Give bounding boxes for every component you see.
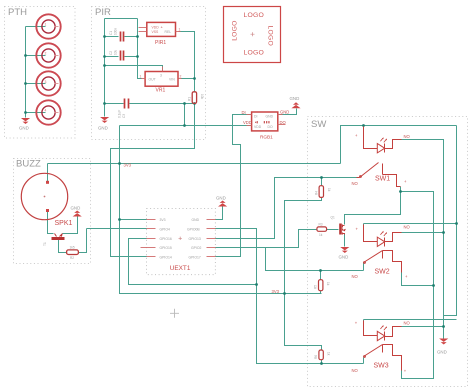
wire SW2 plus line — [364, 223, 457, 225]
frame UEXT1 connector box — [147, 209, 216, 275]
wire BUZZ resistor to UEXT — [79, 229, 87, 253]
pad P1 — [36, 14, 60, 38]
svg-text:2: 2 — [45, 52, 47, 56]
wire Q1 drain run — [345, 192, 401, 225]
svg-text:NO: NO — [404, 225, 411, 230]
svg-text:GND: GND — [290, 96, 300, 101]
junction PIR C2 left — [103, 55, 106, 58]
junction SW1 resistor — [320, 176, 323, 179]
svg-text:UEXT1: UEXT1 — [170, 265, 191, 272]
junction rail right — [455, 222, 458, 225]
svg-text:100n: 100n — [114, 28, 118, 35]
wire PTH pad bus vertical — [25, 27, 27, 118]
svg-text:1k: 1k — [319, 233, 323, 237]
junction PIR adj row — [103, 64, 106, 67]
junction 3V3 speaker line — [118, 162, 121, 165]
svg-text:GPIO4: GPIO4 — [160, 228, 170, 232]
svg-text:OUT: OUT — [149, 78, 156, 82]
svg-text:NO: NO — [352, 181, 359, 186]
wire BUZZ gnd branch — [63, 217, 78, 234]
switch SW3 left stub — [364, 356, 365, 358]
junction SW1 plus rail — [362, 124, 365, 127]
svg-text:1k: 1k — [327, 352, 331, 356]
switch SW2 lamp feed — [364, 225, 378, 242]
svg-text:SW1: SW1 — [375, 176, 390, 183]
junction PIR C3 left — [103, 102, 106, 105]
wire SW2 plus riser — [363, 224, 365, 241]
junction PIR C1 right — [136, 35, 139, 38]
wire SW3 contact riser — [363, 358, 365, 364]
pad P2 — [36, 43, 60, 67]
frame SW section box — [308, 117, 468, 387]
svg-text:▸▮: ▸▮ — [255, 120, 258, 124]
svg-text:C1: C1 — [109, 31, 113, 35]
svg-text:DI: DI — [254, 115, 257, 119]
wire SW3 switch out — [402, 286, 434, 379]
svg-text:T1: T1 — [43, 242, 47, 246]
svg-text:LOGO: LOGO — [267, 26, 274, 46]
resistor R2 buzzer base — [67, 250, 79, 255]
svg-text:REL: REL — [165, 30, 172, 34]
svg-text:GND: GND — [266, 115, 274, 119]
junction SW2 out — [432, 284, 435, 287]
svg-text:4: 4 — [45, 109, 47, 113]
ground GND Q1 — [340, 247, 349, 253]
svg-text:R2: R2 — [70, 256, 74, 260]
frame PIR section box — [92, 7, 206, 140]
svg-text:VDD: VDD — [254, 125, 262, 129]
origin cross — [170, 309, 179, 318]
wire 3V3 to RGB VDD — [120, 125, 252, 127]
IC RGB1 led module — [252, 112, 278, 131]
svg-text:LOGO: LOGO — [232, 20, 239, 40]
LED SW3 — [377, 331, 384, 340]
wire SW2 cathode line — [402, 232, 444, 234]
pad P4 — [36, 100, 60, 124]
wire SW1 switch out to Q1 — [401, 187, 434, 379]
wire SW1 contact riser — [363, 263, 365, 271]
wire RGB GND — [278, 109, 297, 115]
svg-text:NO: NO — [352, 274, 359, 279]
svg-text:GND: GND — [280, 109, 289, 114]
wire VR1 adj row — [105, 66, 163, 71]
switch SW1 cathode to NO pin — [385, 140, 402, 149]
wire BUZZ speaker bottom — [48, 211, 54, 234]
svg-text:PTH: PTH — [8, 7, 27, 18]
wire speaker top riser — [47, 164, 49, 183]
switch SW3 cathode to NO pin — [385, 327, 402, 337]
wire C1 row — [105, 36, 119, 38]
connector UEXT1 pins — [141, 220, 216, 257]
wire R1 bottom to row5 riser — [111, 104, 195, 257]
wire 3V3 vertical trunk — [120, 126, 322, 294]
svg-text:GPIO13: GPIO13 — [189, 237, 201, 241]
junction PTH pad2 — [24, 54, 27, 57]
transistor Q1 — [339, 224, 342, 235]
IC PIR1 sensor module — [147, 22, 176, 36]
switch SW2 right contact path — [383, 251, 402, 273]
svg-text:3V3: 3V3 — [272, 289, 280, 294]
svg-text:GND: GND — [71, 206, 81, 211]
capacitor C2 — [120, 51, 122, 61]
svg-text:VIN: VIN — [169, 78, 175, 82]
svg-text:GND: GND — [192, 218, 200, 222]
junction R1 bottom — [193, 102, 196, 105]
switch SW1 left stub — [357, 177, 360, 179]
svg-text:SPK1: SPK1 — [55, 220, 73, 227]
junction RGB VDD branch — [183, 124, 186, 127]
svg-text:3V3: 3V3 — [124, 163, 132, 168]
svg-text:GPIO14: GPIO14 — [160, 255, 172, 259]
svg-text:GND: GND — [339, 255, 349, 260]
wire C2 row — [105, 56, 119, 58]
svg-text:2: 2 — [180, 75, 182, 79]
svg-text:1: 1 — [179, 27, 181, 31]
svg-text:R1: R1 — [188, 97, 192, 101]
junction SW2 resistor — [319, 269, 322, 272]
switch SW2 cathode to NO pin — [385, 233, 402, 242]
ground GND UEXT (up) — [218, 201, 227, 207]
svg-text:▮ ▮ ▮: ▮ ▮ ▮ — [264, 120, 271, 124]
frame BUZZ section box — [14, 159, 91, 264]
resistor R4 SW1 pull — [319, 186, 323, 198]
svg-text:C2: C2 — [109, 51, 113, 55]
wire UEXT row2 right — [216, 229, 364, 364]
svg-text:GPIO16: GPIO16 — [160, 237, 172, 241]
switch SW3 lamp feed — [364, 321, 378, 336]
wire SW1 pull resistor top — [321, 178, 323, 186]
switch SW1 lamp feed — [364, 127, 378, 149]
LED SW2 — [377, 237, 384, 246]
svg-text:1: 1 — [140, 75, 142, 79]
switch SW2 lever — [364, 251, 383, 263]
junction SW2 cathode gnd — [442, 231, 445, 234]
ground GND BUZZ (up) — [73, 211, 82, 217]
wire SW3 cathode line — [402, 326, 444, 328]
svg-text:VR1: VR1 — [156, 88, 166, 94]
svg-text:RGB1: RGB1 — [260, 134, 273, 139]
switch SW1 lever — [360, 163, 379, 178]
transistor T1 buzzer driver — [52, 234, 65, 239]
svg-text:C3: C3 — [122, 114, 126, 118]
wire C3 row — [105, 103, 124, 105]
junction C3 branch — [183, 102, 186, 105]
resistor R6 SW3 pull — [319, 350, 323, 360]
frame PTH section box — [5, 7, 76, 139]
svg-text:GND: GND — [216, 196, 226, 201]
wire VR1 VIN — [181, 78, 195, 80]
svg-text:R6: R6 — [314, 355, 318, 359]
svg-text:VSS: VSS — [152, 30, 160, 34]
svg-text:BUZZ: BUZZ — [16, 159, 41, 170]
LED SW1 — [377, 144, 384, 153]
ground GND SW right — [439, 339, 448, 345]
wire RGB VDD branch — [184, 104, 186, 126]
svg-text:R5: R5 — [314, 285, 318, 289]
capacitor C1 — [120, 32, 122, 42]
svg-text:3: 3 — [45, 80, 47, 84]
wire BUZZ base to UEXT row2 — [87, 228, 147, 230]
junction SW1 out — [399, 190, 402, 193]
svg-text:10k: 10k — [200, 94, 204, 100]
wire PIR gnd rail — [104, 19, 106, 117]
junction VR1 VIN — [193, 77, 196, 80]
svg-text:PIR: PIR — [95, 7, 111, 18]
svg-text:GPIO0B: GPIO0B — [187, 228, 200, 232]
wire PIR1 REL to R1 — [179, 32, 195, 92]
switch SW3 contact bar — [382, 345, 384, 353]
LOGO plate — [224, 7, 281, 63]
svg-text:LOGO: LOGO — [244, 12, 264, 19]
svg-text:GPIO15: GPIO15 — [160, 246, 172, 250]
junction PIR C2 right — [136, 55, 139, 58]
resistor R5 SW2 pull — [319, 280, 323, 291]
resistor R1 vertical — [192, 92, 196, 104]
wire PIR vdd rail — [138, 19, 142, 79]
junction row3 link — [255, 283, 258, 286]
wire SW3 plus line — [364, 319, 457, 321]
wire UEXT row4 right — [216, 230, 317, 248]
switch SW2 left stub — [364, 262, 365, 264]
capacitor C3 — [124, 99, 126, 109]
svg-text:GPIO2: GPIO2 — [191, 246, 201, 250]
svg-text:GND: GND — [19, 126, 29, 131]
junction SW3 resistor — [320, 362, 323, 365]
svg-text:Q1: Q1 — [331, 216, 335, 220]
switch SW3 right contact path — [383, 345, 402, 371]
wire SW1 pull resistor bottom — [285, 198, 322, 351]
wire PIR top loop — [105, 18, 138, 20]
svg-text:SW3: SW3 — [374, 363, 389, 370]
speaker SPK1 — [21, 173, 67, 219]
svg-text:NO: NO — [404, 134, 411, 139]
svg-text:R4: R4 — [314, 191, 318, 195]
wire PTH pad4 stub — [26, 112, 46, 114]
svg-text:SW2: SW2 — [375, 269, 390, 276]
junction PIR C1 left — [103, 35, 106, 38]
switch SW3 lever — [364, 345, 383, 357]
wire UEXT 3V3 row — [120, 219, 147, 221]
svg-text:GND: GND — [437, 350, 447, 355]
wire PTH pad1 stub — [26, 26, 46, 28]
switch SW2 contact bar — [382, 251, 384, 259]
svg-text:NO: NO — [352, 368, 359, 373]
svg-text:NO: NO — [404, 321, 411, 326]
wire SW1 cathode NO line — [402, 140, 444, 339]
wire BUZZ base resistor run — [59, 240, 67, 253]
wire SW right rail — [444, 126, 457, 316]
wire SW2 switch out — [402, 273, 434, 286]
wire RGB DI — [216, 115, 252, 257]
junction SW3 cathode gnd — [442, 325, 445, 328]
wire PTH pad2 stub — [26, 55, 46, 57]
wire PTH pad3 stub — [26, 83, 46, 85]
junction PTH pad3 — [24, 82, 27, 85]
svg-text:1k: 1k — [327, 188, 331, 192]
ground GND PIR — [100, 117, 109, 123]
wire UEXT GND to symbol — [216, 207, 223, 220]
svg-text:1k: 1k — [326, 282, 330, 286]
wire SW2 pull resistor stubs — [320, 271, 322, 280]
wire UEXT row3 right to SW1 feed — [216, 178, 357, 239]
wire 3V3 to SW rail riser — [341, 126, 457, 164]
svg-text:R3: R3 — [319, 223, 323, 227]
svg-text:3V3: 3V3 — [160, 218, 166, 222]
wire SW3 pull resistor bottom — [321, 360, 323, 364]
svg-text:DO: DO — [268, 125, 273, 129]
svg-text:PIR1: PIR1 — [155, 40, 166, 46]
wire 3V3 horizontal from speaker — [48, 163, 341, 165]
junction PTH pad4 — [24, 111, 27, 114]
wire SW3 plus riser — [363, 320, 365, 334]
svg-text:10u: 10u — [114, 49, 118, 55]
wire GND arrow drop UEXT — [222, 207, 224, 220]
regulator VR1 — [145, 72, 178, 87]
resistor R3 Q1 gate — [317, 227, 327, 231]
svg-text:VDD: VDD — [243, 120, 252, 125]
svg-text:1k5: 1k5 — [70, 246, 75, 250]
svg-text:3: 3 — [160, 74, 162, 78]
ground GND PTH — [21, 118, 30, 124]
wire Q1 base from R4 — [327, 229, 339, 231]
switch SW1 right contact path — [383, 175, 401, 187]
svg-text:GND: GND — [98, 126, 108, 131]
svg-text:DO: DO — [280, 120, 287, 125]
ground GND RGB (up) — [291, 102, 300, 108]
switch SW1 contact bar — [382, 164, 384, 175]
wire Q1 source — [344, 235, 346, 247]
svg-text:LOGO: LOGO — [244, 49, 264, 56]
wire UEXT row3 left riser — [129, 239, 257, 285]
svg-text:GPIO17: GPIO17 — [189, 255, 201, 259]
svg-text:SW: SW — [311, 119, 326, 130]
wire SW2 feed branch — [266, 248, 364, 271]
junction UEXT 3V3 pin — [118, 218, 121, 221]
pad P3 — [36, 71, 60, 95]
svg-text:DI: DI — [242, 110, 246, 115]
junction 3V3 south line — [283, 292, 286, 295]
svg-text:0.1uF: 0.1uF — [118, 110, 122, 118]
svg-text:1: 1 — [45, 23, 47, 27]
